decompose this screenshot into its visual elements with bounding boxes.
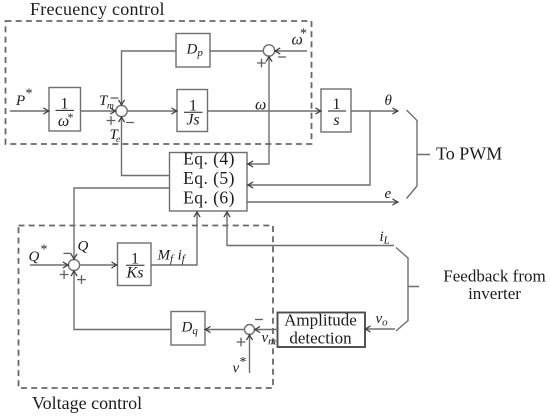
block 1/w*	[49, 88, 81, 132]
block 1/s	[321, 89, 351, 132]
summing junction S1	[116, 105, 127, 116]
svg-text:m: m	[107, 102, 114, 112]
svg-text:Amplitude: Amplitude	[284, 311, 357, 330]
wire Dp to S1 top	[122, 51, 177, 105]
block Dp	[176, 34, 210, 68]
S4 sign plus bottom	[237, 338, 246, 347]
svg-text:Frecuency control: Frecuency control	[30, 0, 165, 19]
wire amplitude detection to S4	[255, 329, 278, 331]
wire Eq Q to S3 top	[74, 188, 170, 259]
svg-text:*: *	[240, 355, 247, 370]
svg-text:To PWM: To PWM	[436, 144, 502, 164]
svg-text:Js: Js	[186, 112, 199, 129]
wire 1/s to theta	[351, 110, 398, 112]
S1 sign minus top	[111, 97, 119, 99]
wire iL feedback to Eq bottom	[227, 212, 394, 246]
brace to PWM	[407, 110, 431, 199]
S3 sign minus top	[64, 252, 72, 254]
svg-text:*: *	[41, 243, 48, 258]
svg-text:1: 1	[333, 96, 341, 113]
svg-text:*: *	[68, 110, 74, 124]
svg-text:v: v	[233, 361, 240, 377]
svg-text:s: s	[333, 112, 339, 129]
brace feedback	[396, 248, 419, 332]
wire P* input	[10, 110, 49, 112]
summing junction S3	[68, 259, 79, 270]
svg-text:Q: Q	[29, 249, 40, 265]
svg-text:θ: θ	[385, 93, 393, 109]
wire S2 to Dp	[210, 50, 263, 52]
svg-text:Feedback from: Feedback from	[443, 267, 545, 286]
svg-text:*: *	[26, 87, 33, 102]
block amplitude detection	[278, 313, 366, 348]
wire branch w down to Eq.(4)	[248, 111, 269, 164]
block Eq.(4)(5)(6)	[170, 153, 248, 212]
svg-text:Eq. (4): Eq. (4)	[183, 149, 235, 169]
wire w* input	[275, 50, 307, 52]
wire theta branch down to Eq.(5)	[248, 111, 370, 185]
wire 1/w* to S1	[81, 110, 116, 112]
svg-text:Eq. (6): Eq. (6)	[183, 188, 235, 208]
wire branch w up to S2	[268, 57, 270, 111]
frequency control dashed box	[6, 21, 312, 144]
S4 sign minus right	[255, 319, 263, 321]
svg-text:*: *	[300, 27, 307, 42]
S3 sign plus left	[60, 270, 69, 279]
summing junction S2	[263, 45, 274, 56]
wire 1/Ks to Eq bottom (Mf if)	[151, 212, 197, 265]
voltage control dashed box	[19, 226, 274, 389]
wire Q* input	[30, 264, 68, 266]
block 1/Js	[177, 90, 208, 132]
svg-text:e: e	[116, 135, 120, 145]
svg-text:P: P	[15, 93, 25, 109]
svg-text:inverter: inverter	[468, 284, 521, 303]
wire v* input	[249, 335, 251, 373]
S2 sign plus bottom	[257, 59, 266, 68]
svg-text:ω: ω	[255, 97, 266, 114]
S1 sign plus left	[107, 116, 116, 125]
svg-text:Eq. (5): Eq. (5)	[183, 168, 235, 188]
wire vo input to amplitude detection	[365, 328, 395, 330]
wire S4 to Dq	[205, 329, 244, 331]
block 1/Ks	[118, 243, 152, 286]
svg-text:e: e	[385, 186, 392, 202]
S2 sign minus right	[278, 56, 286, 58]
summing junction S4	[245, 325, 255, 335]
wire Eq Te to S1 bottom	[122, 117, 170, 175]
block Dq	[171, 312, 205, 346]
svg-text:detection: detection	[289, 329, 352, 348]
wire 1/Js to 1/s	[208, 110, 321, 112]
wire Eq.(6) to e	[247, 201, 397, 203]
wire S3 to 1/Ks	[80, 264, 117, 266]
S1 sign minus bottom	[126, 122, 134, 124]
svg-text:Q: Q	[78, 239, 89, 255]
wire S1 to 1/Js	[127, 110, 176, 112]
svg-text:Voltage control: Voltage control	[32, 393, 142, 413]
wire Dq to S3 bottom	[74, 271, 171, 330]
S3 sign plus bottom	[77, 275, 86, 284]
svg-text:Ks: Ks	[126, 265, 144, 282]
